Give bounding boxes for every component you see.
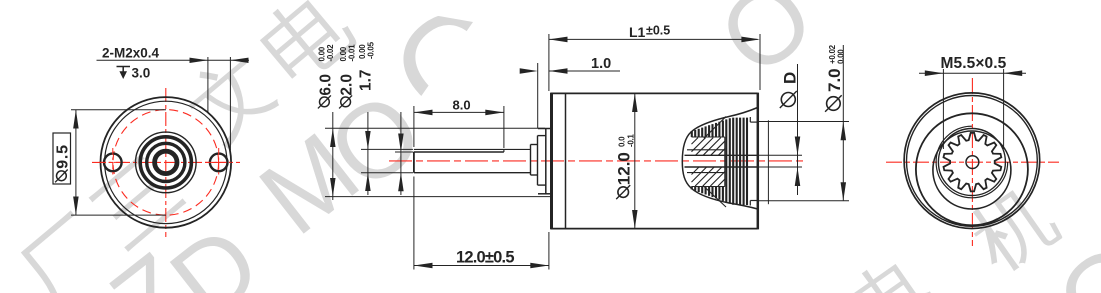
- svg-text:1.7: 1.7: [358, 69, 375, 91]
- nose taper bottom: [682, 162, 757, 210]
- svg-text:7.0: 7.0: [825, 68, 844, 92]
- dimension 2-M2x0.4: [97, 46, 250, 151]
- thread teeth: [692, 118, 747, 205]
- shaft step 2: [538, 136, 546, 186]
- dimension Ø12.0: [615, 93, 638, 228]
- left view bolt circle red dashed: [113, 110, 219, 216]
- dimension box Ø9.5: [53, 110, 166, 215]
- motor body right face: [757, 93, 760, 230]
- left view outer body circle: [101, 97, 232, 228]
- svg-text:6.0: 6.0: [317, 74, 334, 96]
- svg-text:9.5: 9.5: [54, 144, 71, 169]
- watermark CJK glyph 4: [177, 45, 282, 151]
- watermark CJK glyph 1: [10, 210, 117, 293]
- shaft step 1: [531, 145, 538, 176]
- dimension ØD: [780, 64, 800, 195]
- motor body bottom edge: [551, 228, 758, 230]
- depth symbol 3.0: [117, 66, 151, 81]
- shaft: [414, 149, 531, 172]
- gear: [944, 133, 1002, 192]
- hub ring 3: [140, 137, 191, 188]
- bore lines: [685, 120, 803, 204]
- dimension M5.5x0.5: [919, 55, 1026, 149]
- svg-text:2-M2x0.4: 2-M2x0.4: [102, 46, 160, 61]
- svg-text:12.0: 12.0: [615, 152, 634, 185]
- dimension 1.0: [520, 56, 620, 128]
- watermark CJK glyph 6 right: [841, 247, 941, 293]
- motor body top edge: [551, 92, 758, 94]
- svg-text:M5.5×0.5: M5.5×0.5: [941, 55, 1007, 72]
- thread relief: [750, 117, 757, 206]
- svg-text:8.0: 8.0: [453, 97, 471, 112]
- right outer circle: [904, 93, 1040, 229]
- right inner circle: [933, 131, 1011, 209]
- mounting hole left: [104, 154, 122, 172]
- svg-text:0.0: 0.0: [618, 136, 627, 147]
- svg-text:-0.02: -0.02: [326, 44, 335, 62]
- motor body left face: [550, 93, 553, 230]
- left view chamfer circle: [105, 101, 227, 223]
- mounting hole right crosshair: [205, 148, 233, 177]
- mounting hole left crosshair: [99, 148, 127, 177]
- svg-text:-0.01: -0.01: [347, 44, 356, 62]
- thread 3/4 arc: [936, 126, 1008, 198]
- hub ring 2: [147, 143, 185, 181]
- gear center hole: [966, 156, 979, 169]
- svg-text:3.0: 3.0: [132, 66, 151, 81]
- dimension 8.0: [414, 97, 504, 148]
- watermark CJK glyph 2: [85, 152, 186, 252]
- middle view red centerline: [389, 160, 805, 162]
- left view centerlines: [92, 88, 240, 237]
- svg-text:±0.5: ±0.5: [646, 24, 670, 38]
- svg-text:12.0±0.5: 12.0±0.5: [456, 249, 514, 267]
- svg-text:1.0: 1.0: [591, 56, 611, 72]
- right view centerlines: [886, 78, 1059, 246]
- svg-text:-0.1: -0.1: [627, 134, 636, 147]
- dimension Ø2.0: [339, 44, 414, 195]
- dimension L1±0.5: [549, 24, 760, 92]
- watermark CJK glyph 3: [961, 177, 1065, 280]
- right outer companion circle: [907, 95, 1038, 226]
- svg-text:D: D: [781, 72, 800, 84]
- dimension Ø6.0: [317, 44, 550, 200]
- front boss: [538, 129, 551, 194]
- svg-text:0.00: 0.00: [837, 49, 846, 64]
- shaft hole ring: [155, 151, 177, 173]
- dimension 1.7: [358, 41, 414, 195]
- svg-text:L1: L1: [629, 24, 646, 40]
- nose taper top: [682, 108, 757, 162]
- dimension 12.0±0.5: [414, 177, 549, 270]
- watermark CJK glyph 5 right: [252, 0, 361, 90]
- front plate line: [565, 93, 567, 228]
- svg-text:2.0: 2.0: [339, 74, 356, 96]
- svg-text:-0.05: -0.05: [366, 41, 375, 59]
- thread major circle: [938, 129, 1005, 196]
- right middle circle: [916, 113, 1028, 225]
- collet hatched block: [692, 117, 727, 208]
- dimension Ø7.0: [758, 44, 849, 200]
- hub ring 4: [136, 132, 197, 193]
- mounting hole right: [210, 154, 228, 172]
